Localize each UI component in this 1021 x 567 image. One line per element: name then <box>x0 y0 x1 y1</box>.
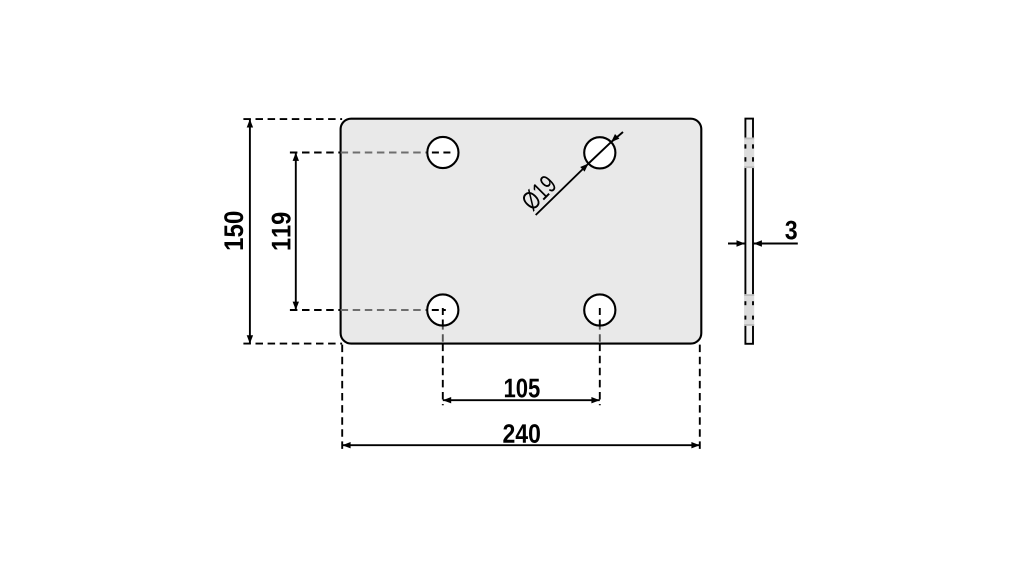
extension line top hole row (119) <box>290 152 341 154</box>
plate front view <box>341 119 702 344</box>
dimension 3 lines <box>728 243 745 245</box>
side view hidden hole band bottom <box>744 294 754 325</box>
side view hidden hole band top <box>744 138 754 168</box>
center mark hole top-left <box>432 152 452 154</box>
diameter text O19 <box>520 174 558 212</box>
hole bottom-left <box>427 294 458 325</box>
extension line left edge (240) <box>341 345 343 451</box>
extension line right hole column (105) <box>599 310 601 344</box>
hole bottom-right <box>584 294 615 325</box>
dimension 119 line <box>295 153 297 311</box>
dimension 105 text <box>505 378 540 397</box>
extension line bottom hole row (119) <box>290 309 341 311</box>
center mark hole bottom-right <box>599 308 601 327</box>
extension line right edge (240) <box>699 345 701 451</box>
center mark hole bottom-left <box>432 309 446 311</box>
extension line top (150) <box>243 118 342 120</box>
side view plate strip <box>745 119 753 344</box>
diameter leader line <box>536 164 589 216</box>
dimension 150 line <box>249 119 251 344</box>
extension line left hole column (105) <box>442 310 444 344</box>
dimension 240 line <box>342 444 700 446</box>
dimension 240 text <box>503 424 540 443</box>
extension line bottom (150) <box>243 343 342 345</box>
dimension 150 text <box>224 212 243 250</box>
dimension 105 line <box>443 399 600 401</box>
hole top-right <box>584 137 615 168</box>
hole top-left <box>427 137 458 168</box>
dimension 119 text <box>272 213 291 250</box>
dimension 3 text <box>785 221 797 240</box>
